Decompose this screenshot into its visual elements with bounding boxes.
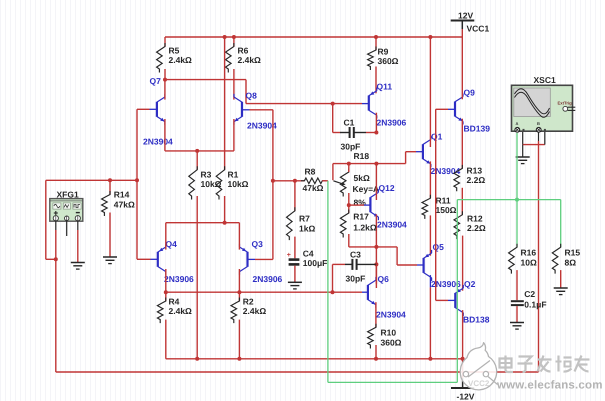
svg-text:Q6: Q6 [378,274,390,284]
node junction Q12 collector [374,162,378,166]
svg-text:C3: C3 [350,250,361,260]
wire Q12 collector lead [375,164,377,200]
svg-text:Q1: Q1 [431,132,443,142]
wire Q7 base [137,108,150,110]
resistor R6 2.4k [233,37,235,47]
svg-text:Q4: Q4 [166,239,178,249]
wire Q2 collector lead [462,310,464,359]
svg-text:R15: R15 [565,248,581,258]
node junction input column [135,178,139,182]
svg-text:1kΩ: 1kΩ [299,224,315,234]
svg-text:R13: R13 [467,166,483,176]
wire Q1 base [416,151,423,153]
svg-text:BD138: BD138 [463,315,490,325]
resistor R13 2.2 [454,165,462,191]
svg-text:30pF: 30pF [346,274,366,284]
wire Q1 emitter lead [429,161,431,198]
svg-text:2.2Ω: 2.2Ω [467,223,486,233]
wire VCC top rail [165,36,462,38]
transistor Q12 2N3904 [369,197,371,212]
node junction R7 top [293,179,297,183]
node junction R1 bottom [223,221,227,225]
svg-text:Key=A: Key=A [353,184,380,194]
wire second stage input Q4/Q3 collectors to Q6 base [166,291,362,293]
svg-text:Q3: Q3 [252,239,264,249]
resistor R5 2.4k [164,37,166,47]
wire Q6 collector lead [375,264,377,288]
ground below scope [516,156,530,158]
wire input bias rail [46,179,137,181]
svg-text:2N3906: 2N3906 [253,274,283,284]
svg-text:VCC2: VCC2 [468,379,490,388]
wire Q6 base [362,291,368,293]
svg-text:2N3904: 2N3904 [376,310,406,320]
resistor R7 1k [294,181,296,211]
resistor R2 2.4k [238,292,240,301]
svg-text:Q7: Q7 [150,76,162,86]
svg-text:R5: R5 [169,46,180,56]
node junction rail R9 [374,35,378,39]
transistor Q11 2N3906 [368,96,370,111]
node junction R14 top [108,178,112,182]
wire Q5 base feed [376,246,397,248]
wire Q12 emitter chain down to Q6 collector [375,214,377,284]
svg-text:Q12: Q12 [379,183,395,193]
node junction rail Q1 collector [428,35,432,39]
ground below R14 [103,256,117,258]
node junction rail -12V [461,357,465,361]
wire R11 to Q5 emitter [429,215,431,255]
resistor R8 47k [301,178,326,184]
wire Q9 base [448,108,455,110]
svg-text:C2: C2 [524,289,535,299]
wire R12 to Q2 emitter [462,236,464,291]
resistor R9 360 [375,37,377,50]
svg-text:10Ω: 10Ω [521,258,537,268]
svg-text:8Ω: 8Ω [565,258,577,268]
node junction feedback R8 left [271,179,275,183]
wire scope ground link [522,131,524,145]
wire Q7/Q4 base column [136,109,138,259]
transistor Q3 2N3906 [246,252,248,267]
svg-text:2N3904: 2N3904 [143,137,173,147]
transistor Q8 2N3904 [241,102,243,117]
svg-text:1.2kΩ: 1.2kΩ [353,222,377,232]
resistor R4 2.4k [165,292,167,301]
wire Q3 base [248,258,256,260]
wire Q12 base link [349,204,364,206]
wire XFG1 minus terminal [77,221,79,230]
node junction C1 left tap [331,102,335,106]
resistor R16 10 [509,244,517,274]
node junction green tap [515,198,519,202]
ground below XFG1 [71,262,85,264]
svg-text:www.elecfans.com: www.elecfans.com [496,380,603,392]
transistor Q6 2N3904 [367,285,369,300]
resistor R14 47k [109,180,111,194]
svg-text:2N3906: 2N3906 [377,118,407,128]
node junction R17 bottom link [374,245,378,249]
svg-text:R11: R11 [436,196,451,206]
wire to Q1 base [405,152,407,164]
wire Q4 base [137,258,151,260]
svg-text:VCC1: VCC1 [467,24,490,34]
svg-text:2.4kΩ: 2.4kΩ [169,306,193,316]
svg-text:R6: R6 [238,46,249,56]
wire Q3 emitter lead [238,223,240,250]
node junction rail R10 [374,357,378,361]
resistor R1 10k [224,37,226,170]
power VCC2 -12V supply symbol [462,359,464,378]
wire Q7 emitter lead [164,119,166,151]
capacitor C1 30pF [340,132,350,134]
svg-text:R8: R8 [305,167,316,177]
node junction rail R6 [232,35,236,39]
svg-text:R9: R9 [378,47,389,57]
svg-text:R2: R2 [243,297,254,307]
wire Vbe multiplier top [333,163,406,165]
svg-text:R7: R7 [299,214,310,224]
node junction rail Q5 [428,357,432,361]
watermark chinese text [500,359,512,368]
svg-text:30pF: 30pF [341,142,361,152]
wire negative supply rail [166,358,463,360]
potentiometer R18 5k [340,169,348,197]
wire Q8 base [242,109,250,111]
node junction rail R1 [223,35,227,39]
wire input net vertical [45,180,47,259]
transistor Q9 BD139 [454,102,456,117]
svg-text:150Ω: 150Ω [436,205,457,215]
wire Q11 base [362,103,369,105]
svg-text:-12V: -12V [457,392,475,401]
wire base rail Q4-Q3 [166,222,240,224]
svg-text:R14: R14 [114,190,130,200]
resistor R11 150 [422,195,430,219]
svg-text:360Ω: 360Ω [378,56,399,66]
power VCC1 +12V supply symbol [461,21,463,30]
svg-text:100μF: 100μF [303,258,328,268]
svg-text:10kΩ: 10kΩ [228,179,249,189]
node junction R5/Q7 collector [163,78,167,82]
svg-text:ExtTrig: ExtTrig [558,101,573,106]
wire Q5 collector to negative rail [429,275,431,287]
node junction rail R3 [195,357,199,361]
svg-text:R18: R18 [354,151,370,161]
svg-text:Q2: Q2 [464,279,476,289]
wire Q8 base to feedback node [272,110,274,260]
svg-text:2.2Ω: 2.2Ω [467,175,486,185]
node junction XFG input [54,257,58,261]
svg-text:2N3906: 2N3906 [164,274,194,284]
svg-text:+: + [287,252,291,259]
svg-text:47kΩ: 47kΩ [114,200,135,210]
node junction C3 right [374,262,378,266]
svg-text:R17: R17 [353,212,369,222]
svg-text:Q11: Q11 [377,82,393,92]
wire Q8 emitter lead [233,119,235,151]
node junction pot top [347,162,351,166]
ground below C2 [510,322,524,324]
node junction pot bottom / Q12 base [347,203,351,207]
wire Q5 base [417,264,424,266]
svg-text:2.4kΩ: 2.4kΩ [169,55,193,65]
wire Q2 base [448,299,455,301]
svg-text:0.1μF: 0.1μF [524,300,546,310]
ground below C4 [288,281,302,283]
wire Q7-Q8 collector link [165,79,246,81]
node junction C1 right / Q11 collector [374,131,378,135]
svg-text:Q9: Q9 [464,88,476,98]
wire Q11 collector lead [375,113,377,133]
svg-text:R3: R3 [201,170,212,180]
transistor Q4 2N3906 [157,252,159,267]
wire Q4 emitter lead [165,223,167,250]
node junction Q4 collector R4 [164,290,168,294]
svg-text:R10: R10 [381,328,397,338]
svg-text:10kΩ: 10kΩ [201,179,222,189]
svg-text:2.4kΩ: 2.4kΩ [243,306,267,316]
wire R8 left link [273,180,305,182]
svg-text:C1: C1 [344,118,355,128]
ground below R15 [554,287,568,289]
wire feedback green net [327,181,329,383]
svg-text:R1: R1 [228,170,239,180]
wire XFG1 plus terminal [55,221,57,230]
transistor Q5 2N3906 [423,258,425,273]
wire emitter join Q7-Q8 [165,150,234,152]
resistor R17 1.2k [348,205,350,213]
svg-text:47kΩ: 47kΩ [303,183,324,193]
svg-text:2N3904: 2N3904 [377,219,407,229]
node junction rail R2 [237,357,241,361]
wire Q7 collector lead [164,80,166,100]
capacitor C2 0.1uF [511,300,524,302]
svg-text:R12: R12 [467,214,483,224]
wire Q9 collector from VCC [461,37,463,99]
svg-text:Q8: Q8 [246,91,258,101]
node junction C3 branch [331,290,335,294]
svg-text:360Ω: 360Ω [381,338,402,348]
wire Q6 emitter lead [375,302,377,327]
svg-text:B: B [537,121,540,126]
wire Q4 collector lead [165,269,167,292]
transistor Q1 2N3904 [422,144,424,159]
svg-text:R4: R4 [169,297,180,307]
capacitor C4 100uF [289,258,300,261]
wire XFG1 common stub [66,221,68,236]
wire C1 left drop [332,104,334,133]
wire Q1 collector to rail [429,37,431,147]
node junction R3 top [195,149,199,153]
svg-text:5kΩ: 5kΩ [354,173,370,183]
watermark elecfans logo [460,343,496,390]
svg-text:A: A [516,121,519,126]
wire Q3 collector lead [238,269,240,292]
svg-text:Q5: Q5 [433,242,445,252]
capacitor C3 30pF [332,264,334,292]
svg-text:R16: R16 [521,248,537,258]
wire Q9 emitter lead [461,119,463,169]
svg-text:XSC1: XSC1 [534,75,556,85]
resistor R15 8 load [552,244,560,274]
wire output node [461,188,463,215]
svg-text:2.4kΩ: 2.4kΩ [238,55,262,65]
svg-text:BD139: BD139 [464,124,491,134]
transistor Q7 2N3904 [156,102,158,117]
wire signal line to scope [56,371,539,373]
transistor Q2 BD138 [454,293,456,308]
resistor R10 360 [368,324,376,349]
resistor R3 10k [196,151,198,170]
resistor R12 2.2 [454,211,462,239]
svg-text:12V: 12V [458,11,473,21]
node junction Q3 collector R2 [237,290,241,294]
wire Q9/Q2 base column [435,109,437,300]
wire pot wiper [332,164,334,181]
